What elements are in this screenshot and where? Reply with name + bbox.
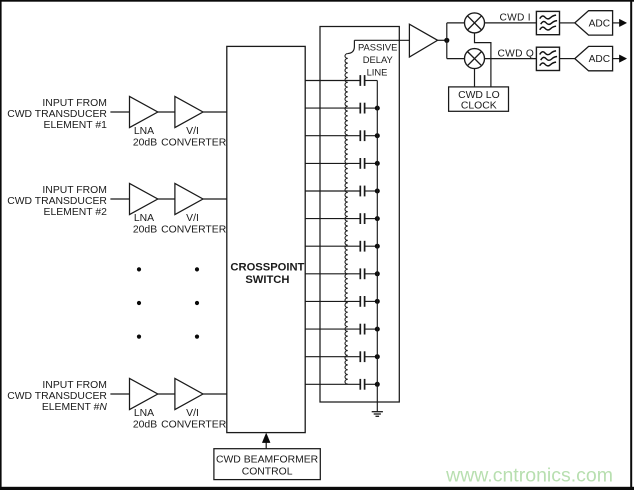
svg-text:V/I: V/I — [186, 126, 199, 137]
svg-text:INPUT FROM: INPUT FROM — [42, 98, 106, 109]
svg-text:PASSIVE: PASSIVE — [358, 41, 397, 52]
svg-text:20dB: 20dB — [133, 419, 157, 430]
svg-text:SWITCH: SWITCH — [245, 274, 289, 286]
svg-text:INPUT FROM: INPUT FROM — [42, 185, 106, 196]
svg-text:CLOCK: CLOCK — [461, 101, 497, 112]
svg-text:ELEMENT #2: ELEMENT #2 — [44, 207, 108, 218]
svg-text:20dB: 20dB — [133, 224, 157, 235]
svg-text:CONVERTER: CONVERTER — [161, 137, 227, 148]
svg-text:ADC: ADC — [589, 19, 611, 30]
svg-text:INPUT FROM: INPUT FROM — [42, 380, 106, 391]
svg-text:V/I: V/I — [186, 213, 199, 224]
svg-text:CWD TRANSDUCER: CWD TRANSDUCER — [7, 391, 107, 402]
svg-text:V/I: V/I — [186, 408, 199, 419]
svg-text:CONVERTER: CONVERTER — [161, 224, 227, 235]
svg-text:ELEMENT #1: ELEMENT #1 — [44, 120, 108, 131]
svg-text:CWD I: CWD I — [499, 13, 531, 24]
svg-text:DELAY: DELAY — [363, 54, 394, 65]
svg-text:CROSSPOINT: CROSSPOINT — [230, 261, 304, 273]
svg-text:CWD Q: CWD Q — [498, 48, 535, 59]
svg-text:LNA: LNA — [134, 408, 154, 419]
svg-text:CONVERTER: CONVERTER — [161, 419, 227, 430]
svg-text:CWD TRANSDUCER: CWD TRANSDUCER — [7, 109, 107, 120]
svg-text:CWD LO: CWD LO — [458, 90, 500, 101]
svg-text:CWD TRANSDUCER: CWD TRANSDUCER — [7, 196, 107, 207]
svg-text:20dB: 20dB — [133, 137, 157, 148]
svg-text:CWD BEAMFORMER: CWD BEAMFORMER — [216, 454, 319, 465]
svg-text:ADC: ADC — [589, 54, 611, 65]
svg-text:LNA: LNA — [134, 213, 154, 224]
svg-text:www.cntronics.com: www.cntronics.com — [445, 465, 613, 487]
svg-text:CONTROL: CONTROL — [242, 467, 293, 478]
svg-text:ELEMENT #N: ELEMENT #N — [42, 402, 108, 413]
svg-text:LNA: LNA — [134, 126, 154, 137]
svg-text:LINE: LINE — [367, 67, 388, 78]
